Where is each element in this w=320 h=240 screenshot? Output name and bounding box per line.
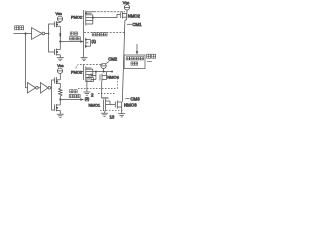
node out2 — [59, 99, 61, 101]
wire resistor to node — [59, 96, 61, 100]
wire NMO-bl source down — [104, 111, 106, 113]
dashed D2 right — [117, 78, 119, 89]
lead CM3 — [126, 98, 130, 100]
inverter INV3 — [41, 83, 51, 93]
transistor PMO2 — [84, 65, 93, 81]
ground G3 — [83, 92, 90, 95]
svg-text:Vcc: Vcc — [57, 64, 63, 68]
lead PMO2 — [82, 71, 84, 73]
transistor NMOS (CMOS pair 2 lower) — [55, 104, 61, 111]
power terminal Vcc2 — [124, 5, 129, 10]
wire node2 down — [59, 100, 61, 105]
wire NMOS2 source down — [59, 111, 61, 115]
wire input branch vertical — [26, 34, 28, 88]
label 入力 (input) — [15, 26, 24, 30]
wire NMOS2 drain up — [59, 104, 61, 107]
svg-text:(1): (1) — [92, 40, 96, 44]
wire stub to ground G3 — [86, 82, 88, 92]
power terminal Vcc3 mid — [101, 63, 106, 68]
label オフ信号 two-line — [69, 90, 80, 98]
box level shift circuit — [124, 55, 145, 69]
arrow into box — [136, 44, 138, 52]
wire Vcc3 down to rail — [103, 69, 105, 72]
wire NMOS source down — [59, 55, 61, 58]
wire Vcc1 to PMOS — [59, 22, 61, 23]
wire rail mid — [93, 71, 113, 73]
inverter INV2 — [28, 83, 39, 93]
transistor NMO3 — [115, 101, 121, 109]
wire output node 2 to right — [60, 99, 80, 101]
wire output node 1 to right — [60, 41, 80, 43]
ground G6 — [118, 114, 125, 117]
ground G5 — [101, 113, 108, 116]
svg-text:13: 13 — [110, 115, 115, 120]
svg-text:NMO2: NMO2 — [128, 14, 141, 19]
transistor NMO-bl — [102, 98, 110, 111]
junction blob on drain — [59, 33, 61, 37]
svg-text:(2): (2) — [85, 97, 89, 101]
node bus1 join — [48, 33, 50, 35]
label オン信号 (1) small right — [92, 33, 108, 44]
wire gate bus 1 — [49, 24, 55, 52]
transistor PMOS (CMOS pair 1 upper) — [55, 21, 61, 28]
wire NMO4 down long — [101, 82, 103, 99]
arrowhead off signal — [80, 98, 84, 101]
svg-text:Vcc: Vcc — [56, 12, 62, 16]
arrowhead on signal into gate — [80, 40, 84, 43]
transistor PMOS (CMOS pair 2 upper) — [55, 77, 61, 84]
wire gate bus 2 — [52, 80, 55, 110]
label オン信号 two-line — [69, 32, 80, 40]
transistor NMO1 — [84, 27, 91, 58]
dashed line D2 top with rounded corner — [76, 65, 103, 69]
svg-text:NMO4: NMO4 — [107, 74, 119, 79]
dashed box D1 top — [84, 32, 124, 34]
ground G2 — [81, 58, 88, 61]
svg-text:CM2: CM2 — [108, 57, 118, 62]
wire INV2-INV3 — [38, 87, 40, 89]
svg-text:PMO2: PMO2 — [71, 69, 82, 74]
wire Vcc2 down — [126, 10, 128, 13]
dashed D2 bottom — [78, 88, 118, 90]
wire gate link — [110, 104, 115, 106]
lead CM1 — [127, 23, 132, 25]
wire NMO3 source down — [121, 107, 123, 114]
wire Vcc4 down — [59, 74, 61, 80]
svg-text:PMO1: PMO1 — [71, 14, 82, 19]
power terminal Vcc4 — [57, 68, 62, 73]
ground G4 — [57, 114, 64, 117]
wire PMOS drain down — [59, 26, 61, 41]
node rail right — [111, 71, 113, 73]
inverter INV1 — [32, 28, 45, 40]
node rail-circle3 — [103, 71, 105, 73]
node out1 — [59, 41, 61, 43]
svg-text:NMO1: NMO1 — [89, 102, 101, 107]
resistor R — [59, 88, 62, 96]
lead CM2 — [105, 62, 108, 64]
transistor NMOS (CMOS pair 1 lower) — [55, 49, 61, 56]
transistor PMO1 — [84, 10, 94, 27]
wire INV1 out to gate bus — [45, 33, 49, 35]
svg-text:Vcc: Vcc — [123, 1, 129, 5]
node rail left — [95, 71, 97, 73]
wire PMOS2 drain to resistor — [59, 83, 61, 88]
svg-text:CM1: CM1 — [132, 22, 142, 27]
lead PMO1 — [82, 16, 84, 18]
wire PMO2 bottom U — [86, 78, 94, 82]
transistor NMO2 — [120, 12, 127, 19]
svg-text:NMO3: NMO3 — [124, 103, 137, 108]
label 出力 (output) — [147, 54, 156, 61]
wire rail B — [93, 14, 121, 17]
wire rail A dashed — [94, 11, 125, 13]
wire input horizontal — [14, 33, 32, 35]
transistor NMO4-right — [100, 72, 107, 82]
node input branch junction — [25, 33, 27, 35]
ground G1 — [57, 58, 64, 61]
svg-text:CM3: CM3 — [130, 96, 140, 101]
wire INV3 out to gate bus 2 — [50, 87, 53, 89]
wire NMOS drain up — [59, 42, 61, 50]
power terminal Vcc1 — [57, 16, 62, 21]
dashed D3 bottom — [100, 110, 123, 112]
transistor NMO4-left — [87, 72, 96, 82]
dashed D3 top — [98, 93, 116, 95]
wire NMO2 source to main vertical — [125, 17, 127, 20]
